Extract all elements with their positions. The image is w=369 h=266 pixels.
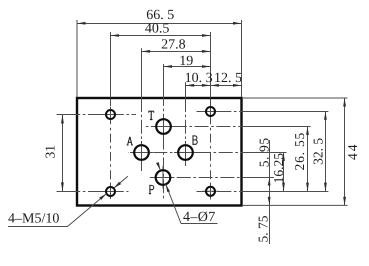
- leader 4-Ø7 underline: [181, 223, 218, 225]
- centerline right mounting column (dashed, inside plate): [210, 99, 212, 196]
- extension line plate right edge (top): [241, 20, 243, 97]
- svg-text:16.25: 16.25: [271, 153, 286, 184]
- svg-text:40.5: 40.5: [145, 21, 170, 36]
- leader 4-Ø7 far-side arrow: [158, 163, 161, 170]
- extension plate bottom edge to right (44 dim): [242, 204, 348, 206]
- svg-text:12. 5: 12. 5: [214, 71, 242, 86]
- centerline P port horizontal (inside dashed): [148, 177, 243, 179]
- centerline A/B ports horizontal (outside solid, to 16.25 dim): [243, 152, 287, 154]
- port label A: [127, 137, 133, 145]
- mounting hole bottom-left: [106, 187, 115, 196]
- port hole P: [156, 170, 171, 185]
- centerline bottom mounting holes horizontal (right solid): [243, 191, 328, 193]
- leader 4-Ø7 diagonal to port P: [166, 184, 181, 224]
- dimension 31 line: [62, 115, 64, 192]
- centerline T/P column: [163, 98, 165, 200]
- leader 4-M5/10 far-side arrow: [114, 176, 128, 188]
- svg-text:44: 44: [345, 143, 360, 161]
- extension line T/P column (above plate): [163, 64, 165, 98]
- centerline top-left mounting hole horizontal (outside solid): [57, 114, 79, 116]
- mounting hole bottom-right: [206, 187, 215, 196]
- extension line right mounting column (above plate): [210, 32, 212, 98]
- svg-text:4–M5/10: 4–M5/10: [8, 212, 59, 227]
- svg-text:32. 5: 32. 5: [311, 138, 326, 165]
- leader 4-M5/10 diagonal to bottom-left mounting hole: [68, 194, 107, 227]
- dimension 10.3 / 12.5 chained line: [186, 85, 242, 87]
- dimension 27.8 line: [142, 51, 211, 53]
- dimension 5.95/5.75 shared line: [269, 140, 271, 244]
- svg-text:5. 95: 5. 95: [257, 137, 272, 167]
- centerline P port horizontal (outside solid, to 5.95 dim): [243, 177, 274, 179]
- crosshair P: [152, 166, 175, 189]
- port hole A: [134, 145, 149, 160]
- centerline A/B ports horizontal (inside dashed): [129, 152, 244, 154]
- extension line B column (above plate): [185, 82, 187, 98]
- centerline T port horizontal (outside solid, to 26.55 dim): [243, 126, 311, 128]
- port label B: [192, 136, 197, 144]
- centerline B column: [185, 98, 187, 166]
- port hole B: [178, 145, 193, 160]
- mounting hole top-left: [106, 110, 115, 119]
- crosshair top-left mounting: [102, 107, 118, 123]
- dimension 16.25 line: [283, 153, 285, 192]
- centerline left mounting column (dashed, inside plate): [110, 99, 112, 196]
- plate outline: [77, 98, 242, 206]
- extension plate top edge to right (44 dim): [242, 97, 348, 99]
- crosshair T: [152, 115, 175, 138]
- dimension 44 line: [344, 98, 346, 205]
- svg-text:19: 19: [179, 54, 193, 69]
- port label P: [149, 185, 154, 193]
- crosshair bottom-right mounting: [202, 183, 218, 199]
- dimension 40.5 line: [111, 35, 211, 37]
- centerline top-left mounting hole horizontal (inside dashed): [78, 114, 136, 116]
- centerline top-right mounting hole horizontal (inside dashed): [197, 111, 244, 113]
- dimension 26.55 line: [307, 127, 309, 192]
- centerline top-right mounting hole horizontal (outside solid, to 32.5 dim): [243, 111, 328, 113]
- crosshair B: [174, 141, 197, 164]
- svg-text:27.8: 27.8: [161, 38, 186, 53]
- svg-text:10. 3: 10. 3: [185, 71, 213, 86]
- dimension 19 line: [164, 66, 211, 68]
- svg-text:5. 75: 5. 75: [256, 215, 271, 242]
- crosshair bottom-left mounting: [102, 183, 118, 199]
- extension line left mounting column (above plate): [110, 32, 112, 98]
- leader 4-M5/10 underline: [8, 226, 68, 228]
- centerline bottom mounting holes horizontal (left solid): [57, 191, 79, 193]
- svg-text:31: 31: [43, 145, 58, 159]
- centerline bottom mounting holes horizontal (inside dashed, left hole): [78, 191, 129, 193]
- crosshair top-right mounting: [202, 103, 218, 119]
- svg-text:4–Ø7: 4–Ø7: [183, 210, 216, 225]
- crosshair A: [130, 141, 153, 164]
- centerline A column: [141, 98, 143, 171]
- centerline T port horizontal (inside dashed): [145, 126, 243, 128]
- centerline bottom mounting holes horizontal (inside dashed, right hole): [197, 191, 244, 193]
- svg-text:26. 55: 26. 55: [292, 132, 307, 171]
- extension line A column (above plate): [141, 48, 143, 98]
- mounting hole top-right: [206, 107, 215, 116]
- port hole T: [156, 119, 171, 134]
- port label T: [149, 111, 154, 119]
- extension line plate left edge (top): [76, 20, 78, 97]
- dimension 32.5 line: [325, 112, 327, 192]
- dimension 66.5 line: [77, 23, 242, 25]
